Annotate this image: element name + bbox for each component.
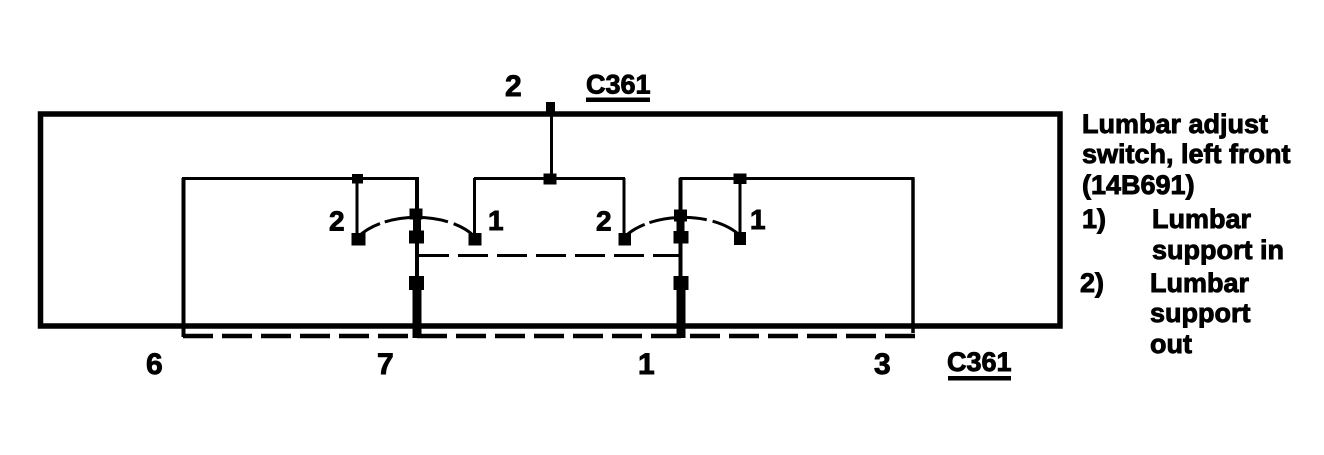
left contact 1 [469, 233, 482, 246]
right wiper contact blob [674, 231, 689, 244]
wire to right contact 2 [623, 178, 626, 235]
wire pin 2 stub [550, 104, 553, 179]
svg-text:C361: C361 [947, 347, 1012, 377]
svg-text:3: 3 [874, 348, 891, 381]
svg-text:2: 2 [596, 206, 612, 237]
mechanical link dashed [419, 254, 680, 257]
wire to left contact 2 [356, 178, 359, 235]
svg-text:support in: support in [1152, 235, 1284, 265]
right pivot lead (to pin 1) [677, 288, 686, 338]
right pivot junction dot [674, 276, 689, 290]
left pivot lead (to pin 7) [413, 288, 422, 338]
left pivot junction dot [409, 276, 424, 290]
svg-text:6: 6 [146, 348, 163, 381]
left wiper apex junction [410, 209, 423, 220]
right contact 1 [734, 232, 746, 245]
svg-text:1: 1 [638, 348, 655, 381]
right rocker frame top [680, 177, 915, 180]
right wiper arm stem [677, 220, 685, 233]
switch body outline S1 [41, 114, 1061, 326]
svg-text:1): 1) [1082, 204, 1106, 234]
rocker base dashed line [183, 334, 915, 339]
svg-text:7: 7 [377, 348, 394, 381]
svg-text:(14B691): (14B691) [1082, 170, 1195, 200]
svg-text:Lumbar: Lumbar [1152, 204, 1252, 234]
svg-text:out: out [1150, 329, 1192, 359]
right wiper pivot wire [679, 178, 683, 337]
svg-text:switch, left front: switch, left front [1082, 139, 1291, 169]
C361 underline (top) [586, 98, 650, 103]
svg-text:1: 1 [488, 205, 504, 236]
svg-text:1: 1 [750, 204, 766, 235]
left wiper contact blob [409, 231, 424, 244]
right contact 2 [619, 233, 632, 246]
wire right frame vertical (to pin 3) [911, 178, 915, 333]
C361 underline (bottom) [948, 376, 1011, 381]
svg-text:C361: C361 [586, 70, 651, 100]
svg-text:support: support [1150, 298, 1251, 328]
right wiper apex junction [674, 210, 687, 222]
svg-text:Lumbar: Lumbar [1150, 268, 1250, 298]
junction right contact 1 top [734, 174, 747, 185]
wire feed horizontal [474, 177, 625, 180]
left wiper arm stem [413, 219, 421, 232]
svg-text:Lumbar adjust: Lumbar adjust [1082, 109, 1268, 139]
right wiper arc [625, 217, 741, 237]
junction left contact 2 top [352, 174, 363, 184]
left wiper arc [358, 217, 474, 237]
junction feed node [544, 174, 557, 185]
wire to left contact 1 [473, 178, 476, 235]
left wiper pivot wire [415, 178, 419, 337]
wire to right contact 1 [739, 178, 742, 235]
left contact 2 [352, 233, 366, 246]
svg-text:2): 2) [1080, 268, 1104, 298]
wire left frame vertical (to pin 6) [182, 178, 186, 337]
svg-text:2: 2 [505, 70, 522, 103]
svg-text:2: 2 [329, 206, 345, 237]
pin 2 terminal tick [546, 102, 555, 115]
wire left frame top [182, 177, 419, 180]
